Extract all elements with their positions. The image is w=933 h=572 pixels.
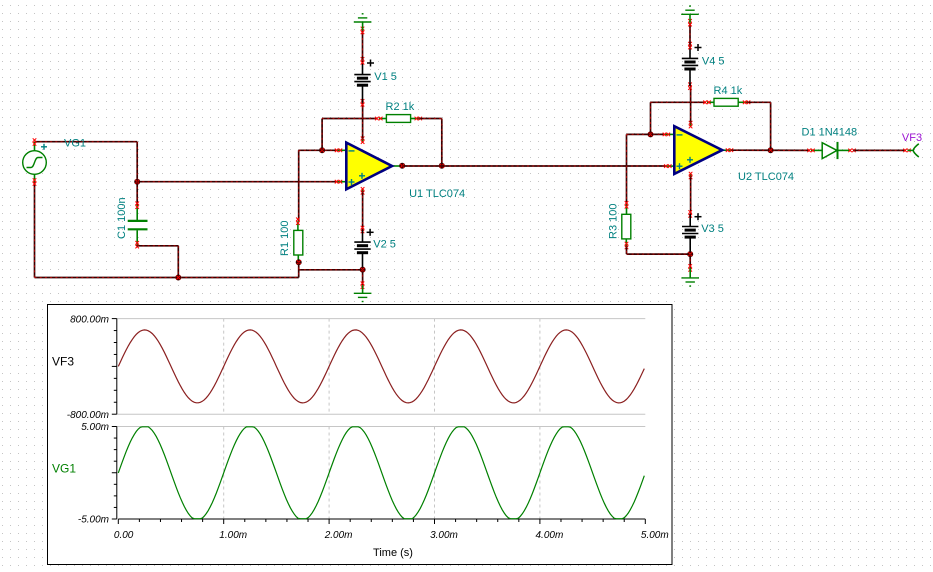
svg-text:U1 TLC074: U1 TLC074	[409, 188, 465, 200]
resistor R4	[707, 101, 714, 103]
svg-text:C1 100n: C1 100n	[116, 197, 128, 239]
wire C1 bottom to rail	[136, 245, 138, 246]
junction feedback/output U2	[768, 147, 774, 153]
battery V4	[689, 69, 691, 86]
svg-text:D1 1N4148: D1 1N4148	[802, 127, 858, 139]
svg-text:VF3: VF3	[52, 355, 74, 369]
op-amp U2	[674, 126, 722, 174]
wire R1 bottom to rail	[298, 262, 300, 277]
junction U1 output	[399, 163, 405, 169]
svg-text:VG1: VG1	[52, 462, 76, 476]
svg-text:V4 5: V4 5	[702, 56, 725, 68]
wire op-amp bottom to V2	[362, 191, 364, 230]
wire feedback up	[321, 119, 323, 151]
wire V2 to ground	[362, 270, 364, 286]
svg-text:5.00m: 5.00m	[641, 530, 669, 541]
resistor R1	[297, 221, 299, 230]
axis labels	[67, 315, 669, 541]
waveform VF3	[118, 330, 644, 403]
wire feedback top left U2	[651, 101, 706, 103]
ground bottom stage1	[362, 285, 364, 293]
wire minus node horizontal	[299, 149, 337, 151]
ground top stage1	[362, 22, 364, 30]
junction minus node U2	[648, 131, 654, 137]
wire input to plus pin	[137, 181, 337, 183]
svg-text:V3 5: V3 5	[701, 223, 724, 235]
op-amp U1 pins	[337, 149, 346, 151]
svg-text:VF3: VF3	[902, 132, 922, 144]
wire minus node U2 horizontal	[627, 133, 666, 135]
battery V1	[362, 85, 364, 103]
svg-text:R2 1k: R2 1k	[386, 101, 415, 113]
wire feedback top right U2	[747, 101, 771, 103]
wire feedback down to output	[441, 119, 443, 166]
svg-text:-800.00m: -800.00m	[67, 410, 109, 421]
wire op-amp U2 top to V4	[690, 86, 692, 123]
svg-text:3.00m: 3.00m	[430, 530, 458, 541]
wire VG1 drop to input node	[136, 142, 138, 182]
wire V3 to ground	[689, 254, 691, 268]
plot gridlines	[117, 319, 646, 427]
svg-text:2.00m: 2.00m	[324, 530, 353, 541]
wire R1 top to minus node	[298, 150, 300, 221]
wire VG1 bottom down	[34, 182, 36, 278]
generator VG1	[23, 142, 47, 182]
svg-text:R1 100: R1 100	[279, 221, 291, 256]
plot panel	[48, 305, 673, 565]
svg-text:1.00m: 1.00m	[219, 530, 247, 541]
svg-text:4.00m: 4.00m	[536, 530, 564, 541]
wire R3 top to minus node U2	[626, 134, 628, 204]
terminal VF3	[908, 149, 914, 151]
svg-text:R4 1k: R4 1k	[714, 85, 743, 97]
wire U2 output	[731, 149, 810, 151]
waveform VG1	[118, 427, 644, 519]
wire R3 bottom	[626, 246, 628, 255]
resistor R2	[379, 118, 387, 120]
wire V4 to ground	[689, 23, 691, 46]
ground top stage2	[689, 14, 691, 22]
svg-text:R3 100: R3 100	[608, 204, 620, 239]
wire op-amp U2 bottom to V3	[690, 176, 692, 214]
junction C1/rail	[175, 275, 181, 281]
wire U1 output to U2 input	[402, 165, 665, 167]
svg-text:V2 5: V2 5	[373, 239, 396, 251]
svg-text:U2 TLC074: U2 TLC074	[738, 171, 794, 183]
op-amp U2 pins	[665, 133, 674, 135]
node A junction input	[134, 179, 140, 185]
battery V3	[689, 214, 691, 227]
junction minus node	[319, 147, 325, 153]
wire feedback up U2	[650, 102, 652, 134]
wire feedback top right	[418, 118, 442, 120]
plot axes	[112, 319, 646, 524]
wire V1 to ground	[362, 30, 364, 60]
svg-text:800.00m: 800.00m	[70, 315, 109, 326]
junction V3 bottom	[687, 251, 693, 257]
wire from VG1 top	[35, 141, 138, 143]
resistor R3	[626, 205, 628, 215]
svg-text:Time (s): Time (s)	[373, 547, 413, 559]
diode D1	[811, 149, 822, 151]
svg-text:VG1: VG1	[64, 138, 86, 150]
battery V2	[362, 230, 364, 243]
ground bottom stage2	[689, 268, 691, 278]
svg-text:-5.00m: -5.00m	[78, 515, 109, 526]
svg-text:V1 5: V1 5	[374, 71, 397, 83]
wire feedback top left	[322, 118, 377, 120]
wire op-amp top to V1	[362, 103, 364, 140]
capacitor C1	[128, 205, 148, 245]
svg-text:5.00m: 5.00m	[81, 422, 109, 433]
wire feedback down U2	[770, 102, 772, 150]
wire bottom rail	[35, 277, 299, 279]
op-amp U1	[346, 143, 392, 190]
junction feedback/output	[439, 163, 445, 169]
junction V2 bottom	[360, 267, 366, 273]
junction R1 bottom	[296, 259, 302, 265]
wire to VF3 terminal	[853, 149, 906, 151]
wire R1 bottom to V2 ground rail	[299, 269, 363, 271]
wire down to C1	[136, 182, 138, 206]
svg-text:0.00: 0.00	[114, 530, 134, 541]
